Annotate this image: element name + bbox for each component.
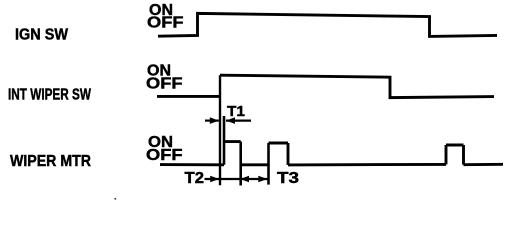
speck artifact: [115, 198, 117, 200]
svg-text:T1: T1: [227, 104, 245, 120]
wire IGN SW waveform: [158, 13, 497, 36]
wire WIPER MTR OFF between pulses: [241, 163, 269, 166]
wire WIPER MTR pulse3 falling edge: [462, 145, 465, 165]
wire WIPER MTR pulse1 rising edge (extended up for T1): [223, 116, 226, 165]
wire T2/T3 dimension line: [205, 178, 268, 180]
wire WIPER MTR OFF lead-in: [160, 163, 224, 166]
wire WIPER MTR pulse2 falling edge: [287, 143, 290, 165]
wire WIPER MTR long OFF segment: [288, 163, 446, 166]
wire WIPER MTR pulse3 top: [446, 144, 464, 147]
arrow T3 right (points right at pulse2 rise): [258, 176, 267, 183]
wire WIPER MTR pulse1 top: [224, 140, 241, 143]
svg-text:INT WIPER SW: INT WIPER SW: [8, 87, 92, 104]
wire WIPER MTR pulse2 top: [269, 142, 289, 145]
arrow T2 left (points right at reference line): [210, 176, 219, 183]
svg-text:WIPER MTR: WIPER MTR: [10, 153, 91, 170]
svg-text:OFF: OFF: [146, 147, 183, 164]
arrow T1 right (points left at pulse edge): [226, 117, 235, 124]
svg-text:OFF: OFF: [147, 15, 184, 32]
wire WIPER MTR OFF tail: [464, 163, 504, 166]
wire WIPER MTR pulse3 rising edge: [445, 145, 448, 164]
wire WIPER MTR pulse2 rising edge (extended down for T3): [267, 143, 270, 185]
wire WIPER MTR pulse1 falling edge (extended down for T2): [239, 142, 242, 186]
arrow T1 left (points right at reference line): [210, 117, 219, 124]
arrow T2 right / T3 left (points left at pulse1 fall): [240, 176, 249, 183]
wire INT WIPER SW waveform: [157, 95, 220, 98]
svg-text:T3: T3: [277, 170, 299, 187]
svg-text:OFF: OFF: [146, 76, 183, 93]
wire T1 dimension left line: [205, 119, 219, 121]
wire reference line at INT wiper ON edge: [219, 75, 221, 185]
svg-text:IGN SW: IGN SW: [15, 26, 69, 43]
wire T1 dimension right line: [226, 119, 251, 121]
svg-text:T2: T2: [185, 170, 205, 187]
